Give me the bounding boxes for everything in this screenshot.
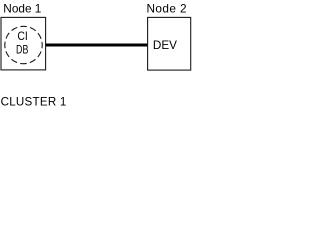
dashed circle (CI DB database): [5, 26, 42, 63]
node box Node 1: [1, 17, 46, 70]
svg-text:CI: CI: [17, 31, 27, 43]
svg-text:Node 2: Node 2: [147, 1, 187, 15]
svg-text:Node 1: Node 1: [3, 1, 41, 15]
node box Node 2: [148, 17, 191, 70]
svg-text:CLUSTER 1: CLUSTER 1: [1, 96, 67, 109]
wire: interconnect between Node 1 and Node 2: [46, 44, 148, 47]
svg-text:DEV: DEV: [153, 39, 177, 52]
svg-text:DB: DB: [16, 45, 29, 57]
